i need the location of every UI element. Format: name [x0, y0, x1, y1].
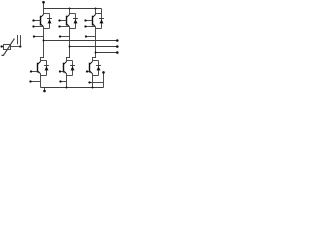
terminal gate G5	[59, 70, 61, 72]
wire phase sense U	[34, 36, 44, 38]
wire emitter Q4	[40, 74, 42, 88]
terminal gate G2	[58, 19, 60, 21]
wire collector-cathode bracket D5	[67, 60, 73, 62]
wire collector-cathode bracket D6	[93, 60, 99, 62]
terminal N (DC-)	[43, 90, 46, 93]
wire aux emitter E2	[60, 26, 70, 28]
terminal gate G4	[30, 70, 32, 72]
terminal aux emitter E6	[88, 81, 90, 83]
node rail junction collector Q2	[69, 8, 71, 10]
diode D6	[96, 61, 101, 76]
terminal P (DC+)	[42, 1, 45, 4]
wire T2 pin	[20, 35, 22, 47]
terminal phase sense U	[33, 35, 35, 37]
wire DC- riser	[103, 73, 105, 88]
wire jog to collector Q4	[40, 57, 44, 59]
wire R1 right lead	[11, 46, 21, 48]
transistor Q4	[31, 62, 41, 74]
wire collector Q6	[92, 58, 94, 62]
wire emitter-anode bracket D3	[96, 28, 102, 30]
wire T1 pin	[17, 35, 19, 44]
node phase tap U	[43, 40, 45, 42]
wire aux emitter E6	[90, 82, 104, 84]
wire aux emitter E4	[31, 81, 41, 83]
wire phase sense V	[60, 36, 70, 38]
terminal phase sense V	[59, 35, 61, 37]
diode D3	[99, 14, 104, 29]
terminal aux emitter E3	[84, 25, 86, 27]
wire collector Q1	[43, 9, 45, 15]
wire phase sense W	[86, 36, 96, 38]
wire collector-cathode bracket D4	[41, 60, 47, 62]
wire R1 left lead	[2, 46, 4, 48]
wire phase output W	[96, 52, 117, 54]
wire emitter-anode bracket D5	[67, 75, 73, 77]
transistor Q5	[60, 62, 67, 74]
wire phase output U	[44, 40, 117, 42]
wire collector-cathode bracket D2	[70, 13, 76, 15]
wire phase node W vertical	[95, 27, 97, 59]
node phase tap W	[95, 52, 97, 54]
wire emitter-anode bracket D4	[41, 75, 47, 77]
wire P terminal stub	[43, 2, 45, 9]
wire collector Q2	[69, 9, 71, 15]
wire phase output V	[70, 46, 117, 48]
diode D1	[47, 14, 52, 29]
wire DC+ rail right bend	[101, 9, 103, 14]
terminal gate G1	[32, 19, 34, 21]
wire collector-cathode bracket D3	[96, 13, 102, 15]
diode D4	[44, 61, 49, 76]
node phase tap V	[69, 46, 71, 48]
terminal T1	[0, 45, 2, 47]
terminal aux emitter E5	[59, 80, 61, 82]
wire collector-cathode bracket D1	[44, 13, 50, 15]
wire phase node U vertical	[43, 27, 45, 59]
terminal gate G6	[86, 70, 88, 72]
terminal T2	[19, 45, 21, 47]
diode D5	[70, 61, 75, 76]
wire DC- rail	[41, 87, 104, 89]
wire emitter-anode bracket D1	[44, 28, 50, 30]
thermistor R1 (NTC)	[2, 39, 15, 56]
wire DC+ rail	[44, 8, 102, 10]
transistor Q6	[87, 62, 93, 74]
diode D2	[73, 14, 78, 29]
wire aux emitter E5	[61, 81, 67, 83]
node rail junction collector Q3	[95, 8, 97, 10]
terminal gate G3	[84, 19, 86, 21]
terminal phase U	[116, 39, 119, 42]
terminal aux emitter E1	[32, 25, 34, 27]
wire aux emitter E1	[34, 26, 44, 28]
transistor Q2	[60, 15, 70, 27]
terminal aux emitter E4	[29, 80, 31, 82]
wire phase node V vertical	[69, 27, 71, 59]
node rail junction emitter Q5	[66, 87, 68, 89]
wire N terminal stub	[44, 88, 46, 91]
node rail junction emitter Q6	[92, 87, 94, 89]
transistor Q1	[34, 15, 44, 27]
terminal phase W	[116, 51, 119, 54]
wire emitter Q5	[66, 74, 68, 88]
terminal aux emitter E2	[58, 25, 60, 27]
wire collector Q4	[40, 58, 42, 62]
wire emitter-anode bracket D2	[70, 28, 76, 30]
wire jog to collector Q5	[66, 57, 70, 59]
wire collector Q3	[95, 9, 97, 15]
terminal N aux	[102, 71, 105, 74]
transistor Q3	[86, 15, 96, 27]
wire emitter Q6	[92, 74, 94, 88]
terminal phase sense W	[85, 35, 87, 37]
terminal phase V	[116, 45, 119, 48]
wire emitter-anode bracket D6	[93, 75, 99, 77]
wire aux emitter E3	[86, 26, 96, 28]
wire jog to collector Q6	[92, 57, 96, 59]
wire collector Q5	[66, 58, 68, 62]
